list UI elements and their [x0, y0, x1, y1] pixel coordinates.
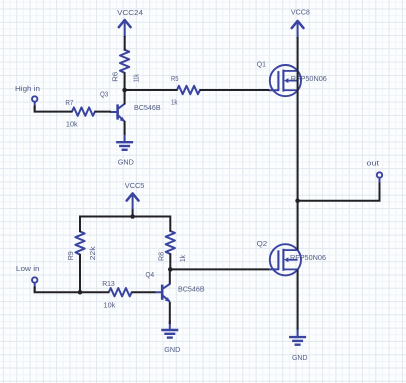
- terminal High in: [34, 101, 36, 110]
- terminal out: [379, 177, 381, 186]
- wire Q2 source to GND: [297, 269, 299, 329]
- resistor R7: [72, 107, 95, 115]
- transistor Q3 BC546B: [116, 104, 119, 119]
- junction node VCC5: [130, 214, 135, 219]
- junction node B: [168, 267, 173, 272]
- svg-text:Q3: Q3: [100, 90, 108, 99]
- wire Q4 emitter to GND: [169, 302, 171, 324]
- wire node A to Q3 collector: [124, 90, 126, 104]
- resistor R9: [75, 232, 84, 255]
- svg-text:out: out: [367, 159, 381, 168]
- transistor Q1 RFP50N06: [270, 65, 301, 96]
- wire R9 bottom to Low-in rail: [79, 254, 81, 292]
- svg-text:GND: GND: [292, 353, 308, 362]
- svg-text:11k: 11k: [132, 74, 141, 82]
- wire node A to R5: [125, 89, 178, 91]
- wire VCC5 stem: [132, 210, 134, 217]
- junction node R9/Low-in: [78, 290, 83, 295]
- resistor R13: [109, 288, 132, 296]
- wire Q4 collector to node B: [169, 269, 171, 283]
- svg-text:R5: R5: [171, 74, 179, 83]
- svg-text:VCC8: VCC8: [291, 8, 310, 17]
- wire node B to Q2 gate: [170, 268, 269, 270]
- svg-text:Q2: Q2: [257, 239, 268, 248]
- wire R6 to node A: [124, 73, 126, 91]
- svg-text:GND: GND: [164, 345, 180, 354]
- transistor Q4 BC546B: [161, 285, 164, 300]
- svg-text:High in: High in: [15, 84, 40, 93]
- wire R7 to Q3 base: [95, 111, 111, 113]
- wire VCC24 to R6: [124, 36, 126, 51]
- svg-text:VCC24: VCC24: [117, 8, 143, 17]
- svg-text:BC546B: BC546B: [178, 284, 205, 293]
- junction node out: [295, 198, 300, 203]
- svg-text:Low in: Low in: [16, 264, 40, 273]
- svg-text:R9: R9: [66, 251, 75, 260]
- resistor R6: [120, 50, 129, 73]
- terminal Low in: [34, 282, 36, 291]
- wire R13 to Q4 base: [132, 291, 156, 293]
- ground GND Q3: [124, 133, 126, 142]
- junction node A: [122, 88, 127, 93]
- wire R5 to Q1 gate: [200, 89, 270, 91]
- power flag VCC24: [119, 20, 131, 27]
- svg-text:BC546B: BC546B: [134, 103, 161, 112]
- svg-text:10k: 10k: [104, 301, 116, 310]
- wire Low in to R13: [35, 287, 109, 293]
- wire Q3 emitter to GND: [124, 121, 126, 135]
- power flag VCC5: [127, 193, 139, 200]
- wire VCC5 rail R9 to R8: [80, 217, 170, 233]
- resistor R8: [166, 231, 175, 254]
- svg-text:1k: 1k: [178, 255, 187, 262]
- wire VCC8 to Q1 drain: [297, 37, 299, 71]
- resistor R5: [177, 86, 200, 94]
- svg-text:Q1: Q1: [257, 59, 266, 68]
- svg-text:22k: 22k: [88, 246, 97, 260]
- svg-text:R7: R7: [65, 98, 73, 107]
- svg-text:R6: R6: [111, 72, 120, 82]
- power flag VCC8: [292, 21, 304, 28]
- svg-text:Q4: Q4: [146, 270, 155, 279]
- svg-text:1k: 1k: [171, 97, 178, 106]
- ground GND Q2: [297, 328, 299, 337]
- svg-text:RFP50N06: RFP50N06: [290, 253, 326, 262]
- svg-text:R8: R8: [156, 252, 165, 261]
- svg-text:R13: R13: [102, 279, 115, 288]
- transistor Q2 RFP50N06: [270, 244, 301, 275]
- wire Q1 source through out node to Q2 drain: [297, 71, 299, 250]
- wire out terminal to node: [298, 183, 380, 201]
- svg-text:10k: 10k: [66, 120, 78, 129]
- svg-text:VCC5: VCC5: [125, 181, 145, 190]
- ground GND Q4: [169, 321, 171, 330]
- svg-text:GND: GND: [118, 157, 134, 166]
- wire R8 bottom to node B: [169, 253, 171, 269]
- wire High in to R7: [35, 106, 73, 112]
